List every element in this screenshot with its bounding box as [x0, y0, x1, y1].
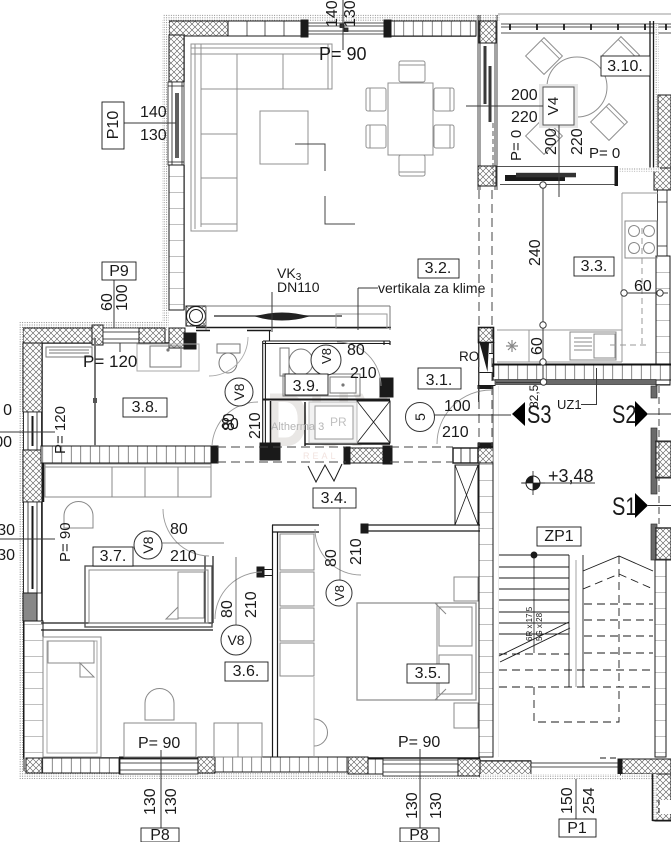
svg-text:210: 210: [350, 365, 377, 382]
svg-text:S1: S1: [612, 493, 636, 521]
svg-text:130: 130: [428, 792, 445, 819]
svg-text:130: 130: [163, 788, 180, 815]
svg-text:V8: V8: [332, 585, 347, 601]
svg-text:5: 5: [412, 413, 428, 421]
svg-text:P8: P8: [150, 827, 170, 842]
svg-text:60: 60: [529, 337, 546, 355]
svg-text:3.7.: 3.7.: [100, 548, 127, 565]
svg-text:30: 30: [0, 547, 15, 564]
svg-text:80: 80: [323, 549, 340, 567]
svg-text:P8: P8: [409, 827, 429, 842]
svg-text:130: 130: [404, 792, 421, 819]
svg-text:3.10.: 3.10.: [607, 58, 643, 75]
svg-text:80: 80: [170, 521, 188, 538]
svg-text:P= 90: P= 90: [138, 735, 180, 752]
svg-text:P= 90: P= 90: [57, 522, 74, 562]
svg-text:V8: V8: [140, 536, 156, 553]
svg-text:5G x 28: 5G x 28: [535, 612, 544, 641]
svg-text:80: 80: [347, 342, 365, 359]
svg-text:6R x 17,5: 6R x 17,5: [525, 606, 534, 641]
svg-text:P9: P9: [109, 263, 129, 280]
svg-text:S3: S3: [527, 401, 551, 429]
svg-text:100: 100: [114, 284, 131, 311]
svg-text:210: 210: [243, 591, 260, 618]
svg-text:140: 140: [140, 104, 167, 121]
svg-text:V8: V8: [319, 348, 334, 364]
svg-text:P10: P10: [105, 111, 122, 140]
svg-text:130: 130: [140, 127, 167, 144]
svg-text:V8: V8: [227, 632, 244, 648]
svg-text:3.2.: 3.2.: [425, 260, 452, 277]
svg-text:220: 220: [511, 109, 538, 126]
svg-text:140: 140: [324, 0, 341, 27]
svg-text:210: 210: [247, 412, 264, 439]
svg-text:PR: PR: [330, 415, 347, 429]
svg-text:S2: S2: [612, 401, 636, 429]
svg-text:150: 150: [559, 787, 576, 814]
svg-text:+3,48: +3,48: [548, 466, 594, 486]
svg-text:P= 90: P= 90: [398, 734, 440, 751]
svg-text:DN110: DN110: [277, 279, 320, 295]
svg-text:P= 120: P= 120: [52, 406, 69, 454]
svg-text:P= 120: P= 120: [83, 352, 137, 371]
svg-text:30: 30: [0, 522, 15, 539]
svg-text:3.9.: 3.9.: [293, 378, 320, 395]
svg-text:3.1.: 3.1.: [426, 372, 453, 389]
svg-text:P1: P1: [567, 820, 587, 837]
svg-text:240: 240: [527, 239, 544, 266]
svg-text:210: 210: [442, 424, 469, 441]
svg-text:0: 0: [3, 402, 12, 419]
svg-text:220: 220: [569, 128, 586, 155]
svg-text:80: 80: [219, 600, 236, 618]
svg-text:100: 100: [444, 398, 471, 415]
svg-text:UZ1: UZ1: [557, 397, 582, 412]
svg-text:200: 200: [511, 87, 538, 104]
svg-text:210: 210: [170, 548, 197, 565]
svg-text:3.4.: 3.4.: [321, 490, 348, 507]
svg-text:V8: V8: [231, 383, 247, 400]
svg-text:P= 90: P= 90: [319, 44, 367, 64]
svg-text:254: 254: [581, 787, 598, 814]
svg-text:00: 00: [0, 434, 12, 451]
svg-text:ZP1: ZP1: [544, 528, 573, 545]
svg-text:200: 200: [543, 128, 560, 155]
svg-text:V4: V4: [545, 97, 562, 115]
svg-text:3.3.: 3.3.: [581, 258, 608, 275]
svg-text:Altherma 3: Altherma 3: [271, 421, 324, 433]
svg-text:RO: RO: [459, 349, 479, 364]
svg-text:3.8.: 3.8.: [132, 399, 159, 416]
svg-text:3.6.: 3.6.: [233, 663, 260, 680]
svg-text:130: 130: [342, 0, 359, 27]
svg-text:P= 0: P= 0: [508, 130, 525, 161]
svg-text:130: 130: [142, 788, 159, 815]
svg-text:210: 210: [348, 538, 365, 565]
svg-text:60: 60: [634, 278, 652, 295]
svg-text:P= 0: P= 0: [589, 145, 620, 162]
svg-text:3.5.: 3.5.: [415, 665, 442, 682]
svg-text:vertikala za klime: vertikala za klime: [378, 280, 486, 296]
svg-text:80: 80: [221, 413, 238, 431]
